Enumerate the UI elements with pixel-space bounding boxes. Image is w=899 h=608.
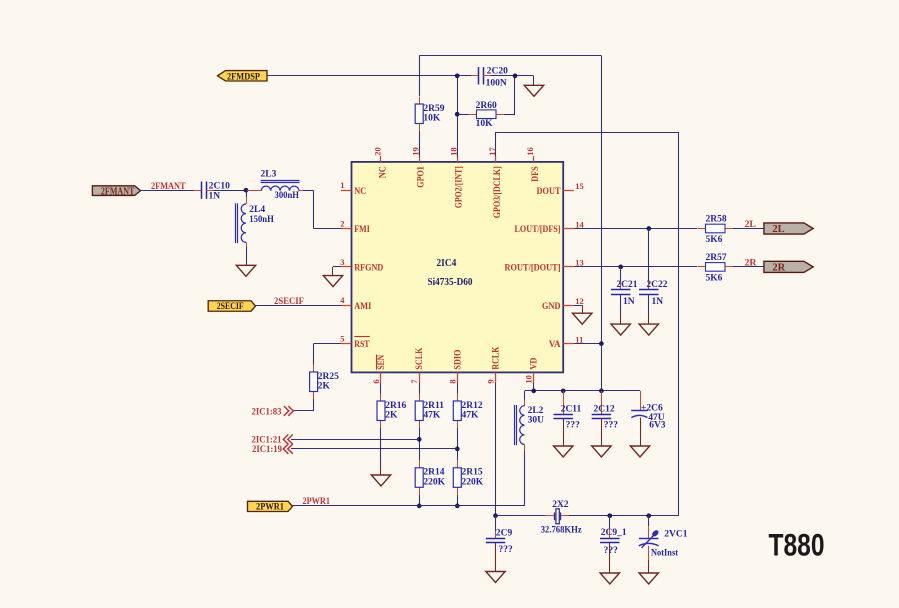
svg-text:1N: 1N bbox=[623, 297, 635, 307]
svg-text:10K: 10K bbox=[476, 119, 494, 129]
svg-text:5: 5 bbox=[340, 334, 344, 344]
svg-text:2R25: 2R25 bbox=[318, 372, 339, 382]
svg-text:150nH: 150nH bbox=[249, 215, 274, 225]
svg-text:2K: 2K bbox=[385, 411, 398, 421]
svg-text:2L: 2L bbox=[772, 224, 784, 235]
svg-text:2C11: 2C11 bbox=[561, 404, 582, 414]
svg-text:2L2: 2L2 bbox=[528, 406, 544, 416]
svg-text:10: 10 bbox=[524, 375, 534, 384]
svg-text:3: 3 bbox=[340, 257, 344, 267]
svg-text:1: 1 bbox=[340, 180, 344, 190]
svg-text:2C9_1: 2C9_1 bbox=[601, 528, 627, 538]
svg-text:SCLK: SCLK bbox=[414, 347, 425, 369]
svg-text:RST: RST bbox=[354, 339, 370, 350]
svg-text:GPO1: GPO1 bbox=[416, 166, 427, 188]
svg-text:ROUT/[DOUT]: ROUT/[DOUT] bbox=[505, 263, 561, 274]
svg-text:2R60: 2R60 bbox=[476, 101, 497, 111]
svg-text:220K: 220K bbox=[423, 478, 445, 488]
svg-text:2L: 2L bbox=[745, 219, 757, 230]
svg-text:2R12: 2R12 bbox=[462, 401, 483, 411]
svg-text:2R: 2R bbox=[772, 263, 785, 274]
svg-text:300nH: 300nH bbox=[275, 191, 300, 201]
svg-text:11: 11 bbox=[575, 334, 583, 344]
svg-text:2X2: 2X2 bbox=[552, 500, 569, 510]
svg-text:5K6: 5K6 bbox=[706, 235, 723, 245]
svg-text:NC: NC bbox=[354, 186, 366, 197]
svg-text:1N: 1N bbox=[209, 191, 221, 201]
svg-text:NC: NC bbox=[377, 166, 388, 178]
svg-text:16: 16 bbox=[525, 147, 535, 156]
svg-text:???: ??? bbox=[604, 420, 619, 430]
svg-text:FMI: FMI bbox=[354, 224, 370, 235]
svg-text:2C22: 2C22 bbox=[646, 280, 667, 290]
svg-text:DOUT: DOUT bbox=[537, 186, 561, 197]
svg-text:Si4735-D60: Si4735-D60 bbox=[428, 277, 473, 288]
svg-text:2FMDSP: 2FMDSP bbox=[227, 72, 260, 82]
svg-text:32.768KHz: 32.768KHz bbox=[541, 526, 583, 536]
svg-text:VA: VA bbox=[549, 339, 561, 350]
svg-text:6: 6 bbox=[371, 379, 381, 383]
svg-text:???: ??? bbox=[566, 420, 581, 430]
svg-text:2C21: 2C21 bbox=[616, 280, 637, 290]
svg-text:GND: GND bbox=[542, 301, 561, 312]
svg-text:2C20: 2C20 bbox=[487, 67, 508, 77]
svg-text:NotInst: NotInst bbox=[651, 549, 679, 559]
svg-text:2FMANT: 2FMANT bbox=[101, 186, 135, 197]
svg-text:6V3: 6V3 bbox=[649, 420, 666, 430]
svg-text:47K: 47K bbox=[423, 411, 441, 421]
svg-text:2L4: 2L4 bbox=[249, 205, 265, 215]
svg-text:LOUT/[DFS]: LOUT/[DFS] bbox=[515, 224, 561, 235]
svg-text:SDIO: SDIO bbox=[452, 349, 463, 369]
svg-text:RCLK: RCLK bbox=[491, 346, 502, 369]
svg-text:20: 20 bbox=[372, 147, 382, 156]
svg-text:100N: 100N bbox=[486, 79, 507, 89]
svg-text:T880: T880 bbox=[769, 528, 825, 563]
svg-text:2C9: 2C9 bbox=[496, 529, 513, 539]
svg-text:GPO2/[INT]: GPO2/[INT] bbox=[454, 166, 465, 208]
svg-text:2R16: 2R16 bbox=[385, 401, 406, 411]
svg-text:2VC1: 2VC1 bbox=[664, 530, 687, 540]
svg-text:1N: 1N bbox=[652, 297, 664, 307]
svg-text:2R15: 2R15 bbox=[462, 468, 483, 478]
svg-text:2R57: 2R57 bbox=[706, 253, 727, 263]
svg-text:AMI: AMI bbox=[354, 301, 371, 312]
svg-text:+2C6: +2C6 bbox=[641, 403, 663, 413]
svg-text:2IC1:19: 2IC1:19 bbox=[252, 444, 282, 455]
svg-text:DFS: DFS bbox=[530, 166, 541, 182]
svg-text:???: ??? bbox=[499, 545, 514, 555]
svg-text:14: 14 bbox=[575, 219, 584, 229]
svg-text:2K: 2K bbox=[318, 382, 331, 392]
svg-text:2R59: 2R59 bbox=[423, 104, 444, 114]
svg-text:30U: 30U bbox=[528, 416, 545, 426]
svg-text:7: 7 bbox=[409, 379, 419, 384]
svg-text:SEN: SEN bbox=[376, 355, 387, 370]
svg-text:2: 2 bbox=[340, 219, 344, 229]
svg-text:9: 9 bbox=[486, 379, 496, 383]
svg-text:GPO3/[DCLK]: GPO3/[DCLK] bbox=[492, 166, 503, 218]
svg-text:12: 12 bbox=[575, 296, 584, 306]
svg-text:2R58: 2R58 bbox=[706, 215, 727, 225]
svg-text:2L3: 2L3 bbox=[261, 170, 277, 180]
svg-text:2SECIF: 2SECIF bbox=[217, 302, 244, 312]
svg-text:2IC1:83: 2IC1:83 bbox=[252, 406, 282, 417]
svg-text:???: ??? bbox=[604, 546, 619, 556]
svg-text:220K: 220K bbox=[462, 478, 484, 488]
svg-text:10K: 10K bbox=[423, 114, 441, 124]
svg-text:2PWR1: 2PWR1 bbox=[256, 502, 284, 512]
svg-text:47K: 47K bbox=[462, 411, 480, 421]
svg-text:5K6: 5K6 bbox=[706, 273, 723, 283]
svg-text:2C12: 2C12 bbox=[594, 404, 615, 414]
svg-text:2R11: 2R11 bbox=[423, 401, 444, 411]
svg-text:2R14: 2R14 bbox=[423, 468, 444, 478]
svg-text:2R: 2R bbox=[745, 257, 758, 268]
svg-text:8: 8 bbox=[447, 379, 457, 383]
svg-text:RFGND: RFGND bbox=[354, 263, 383, 274]
svg-text:VD: VD bbox=[529, 358, 540, 370]
svg-text:2IC4: 2IC4 bbox=[437, 258, 457, 269]
svg-text:15: 15 bbox=[575, 181, 584, 191]
